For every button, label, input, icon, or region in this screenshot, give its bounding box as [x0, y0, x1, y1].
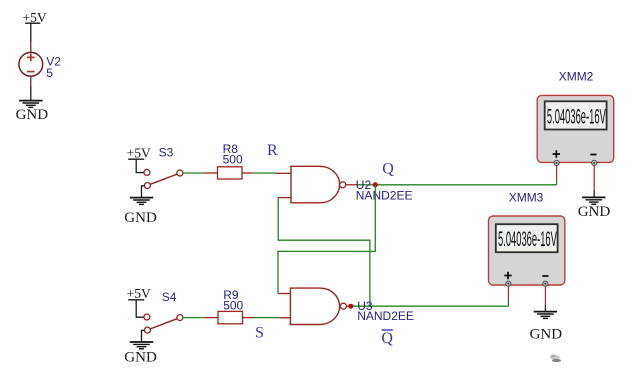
wire (pin stub) [30, 42, 32, 53]
power rail +5V (V2) [23, 10, 47, 25]
svg-text:XMM3: XMM3 [509, 190, 544, 204]
mouse cursor [550, 354, 561, 362]
wire (pin stub U2 output) [346, 184, 358, 186]
wire (pin stub R9 left) [205, 317, 218, 319]
wire Q [358, 184, 557, 186]
wire (pin stub U2 input A) [276, 172, 291, 174]
svg-text:Q: Q [382, 161, 394, 178]
wire (XMM3 - terminal) [544, 286, 546, 305]
wire [254, 317, 279, 319]
node Q-bar label [381, 330, 393, 347]
wire [556, 181, 558, 185]
wire [183, 172, 205, 174]
wire (pin stub U3 input B) [280, 317, 291, 319]
junction (Q-bar node) [348, 304, 353, 309]
svg-text:XMM2: XMM2 [559, 70, 594, 84]
ground (XMM2) [578, 197, 611, 219]
svg-text:GND: GND [124, 210, 157, 226]
switch S4 [144, 314, 183, 333]
NAND gate U3 [290, 288, 346, 324]
svg-text:S: S [255, 325, 264, 342]
svg-text:NAND2EE: NAND2EE [357, 309, 414, 323]
wire [30, 23, 32, 42]
wire (Q-bar feedback to U2 input) [278, 198, 370, 306]
resistor R8 [218, 167, 243, 179]
wire (pin stub) [30, 76, 32, 86]
svg-text:5.04036e-16V: 5.04036e-16V [498, 228, 557, 251]
svg-text:5.04036e-16V: 5.04036e-16V [547, 105, 606, 128]
wire (pin stub U3 output) [346, 305, 350, 307]
wire [30, 86, 32, 100]
wire (pin stub R8 right) [242, 172, 253, 174]
power rail +5V (S4) [127, 286, 151, 301]
svg-text:NAND2EE: NAND2EE [356, 188, 413, 202]
svg-text:GND: GND [578, 204, 611, 220]
NAND gate U2 [291, 166, 346, 203]
wire [253, 172, 276, 174]
wire (pin stub U2 input B) [278, 197, 292, 199]
switch S3 [144, 169, 183, 188]
svg-text:GND: GND [124, 350, 157, 366]
wire [507, 301, 509, 306]
wire [136, 159, 144, 172]
wire [183, 317, 205, 319]
svg-text:S4: S4 [162, 290, 177, 304]
wire [142, 186, 145, 197]
wire [136, 300, 144, 317]
ground (V2) [16, 101, 49, 123]
wire (XMM3 + terminal) [507, 286, 509, 301]
wire (pin stub U3 input A) [278, 293, 290, 295]
power rail +5V (S3) [127, 146, 151, 161]
multimeter XMM3 [489, 216, 565, 286]
resistor R9 [218, 311, 243, 323]
svg-text:+5V: +5V [127, 146, 151, 161]
svg-text:R: R [267, 142, 278, 159]
wire [142, 330, 145, 341]
ground (XMM3) [530, 312, 563, 343]
svg-text:S3: S3 [159, 146, 174, 160]
ground (S4) [124, 342, 157, 366]
svg-text:500: 500 [223, 153, 243, 167]
svg-text:+5V: +5V [127, 286, 151, 301]
svg-text:GND: GND [530, 327, 563, 343]
wire Q-bar [353, 305, 508, 307]
wire (XMM2 + terminal) [556, 166, 558, 181]
multimeter XMM2 [537, 95, 614, 165]
junction (Q node) [373, 182, 378, 187]
svg-text:Q: Q [381, 330, 393, 347]
voltage source V2 [19, 52, 43, 76]
wire (pin stub R9 right) [243, 317, 255, 319]
svg-text:GND: GND [16, 107, 49, 123]
wire (XMM2 - terminal) [593, 166, 595, 191]
wire (pin stub R8 left) [205, 172, 218, 174]
ground (S3) [124, 198, 157, 226]
svg-text:500: 500 [223, 299, 243, 313]
wire (Q feedback to U3 input) [278, 185, 375, 294]
svg-text:5: 5 [46, 66, 53, 80]
